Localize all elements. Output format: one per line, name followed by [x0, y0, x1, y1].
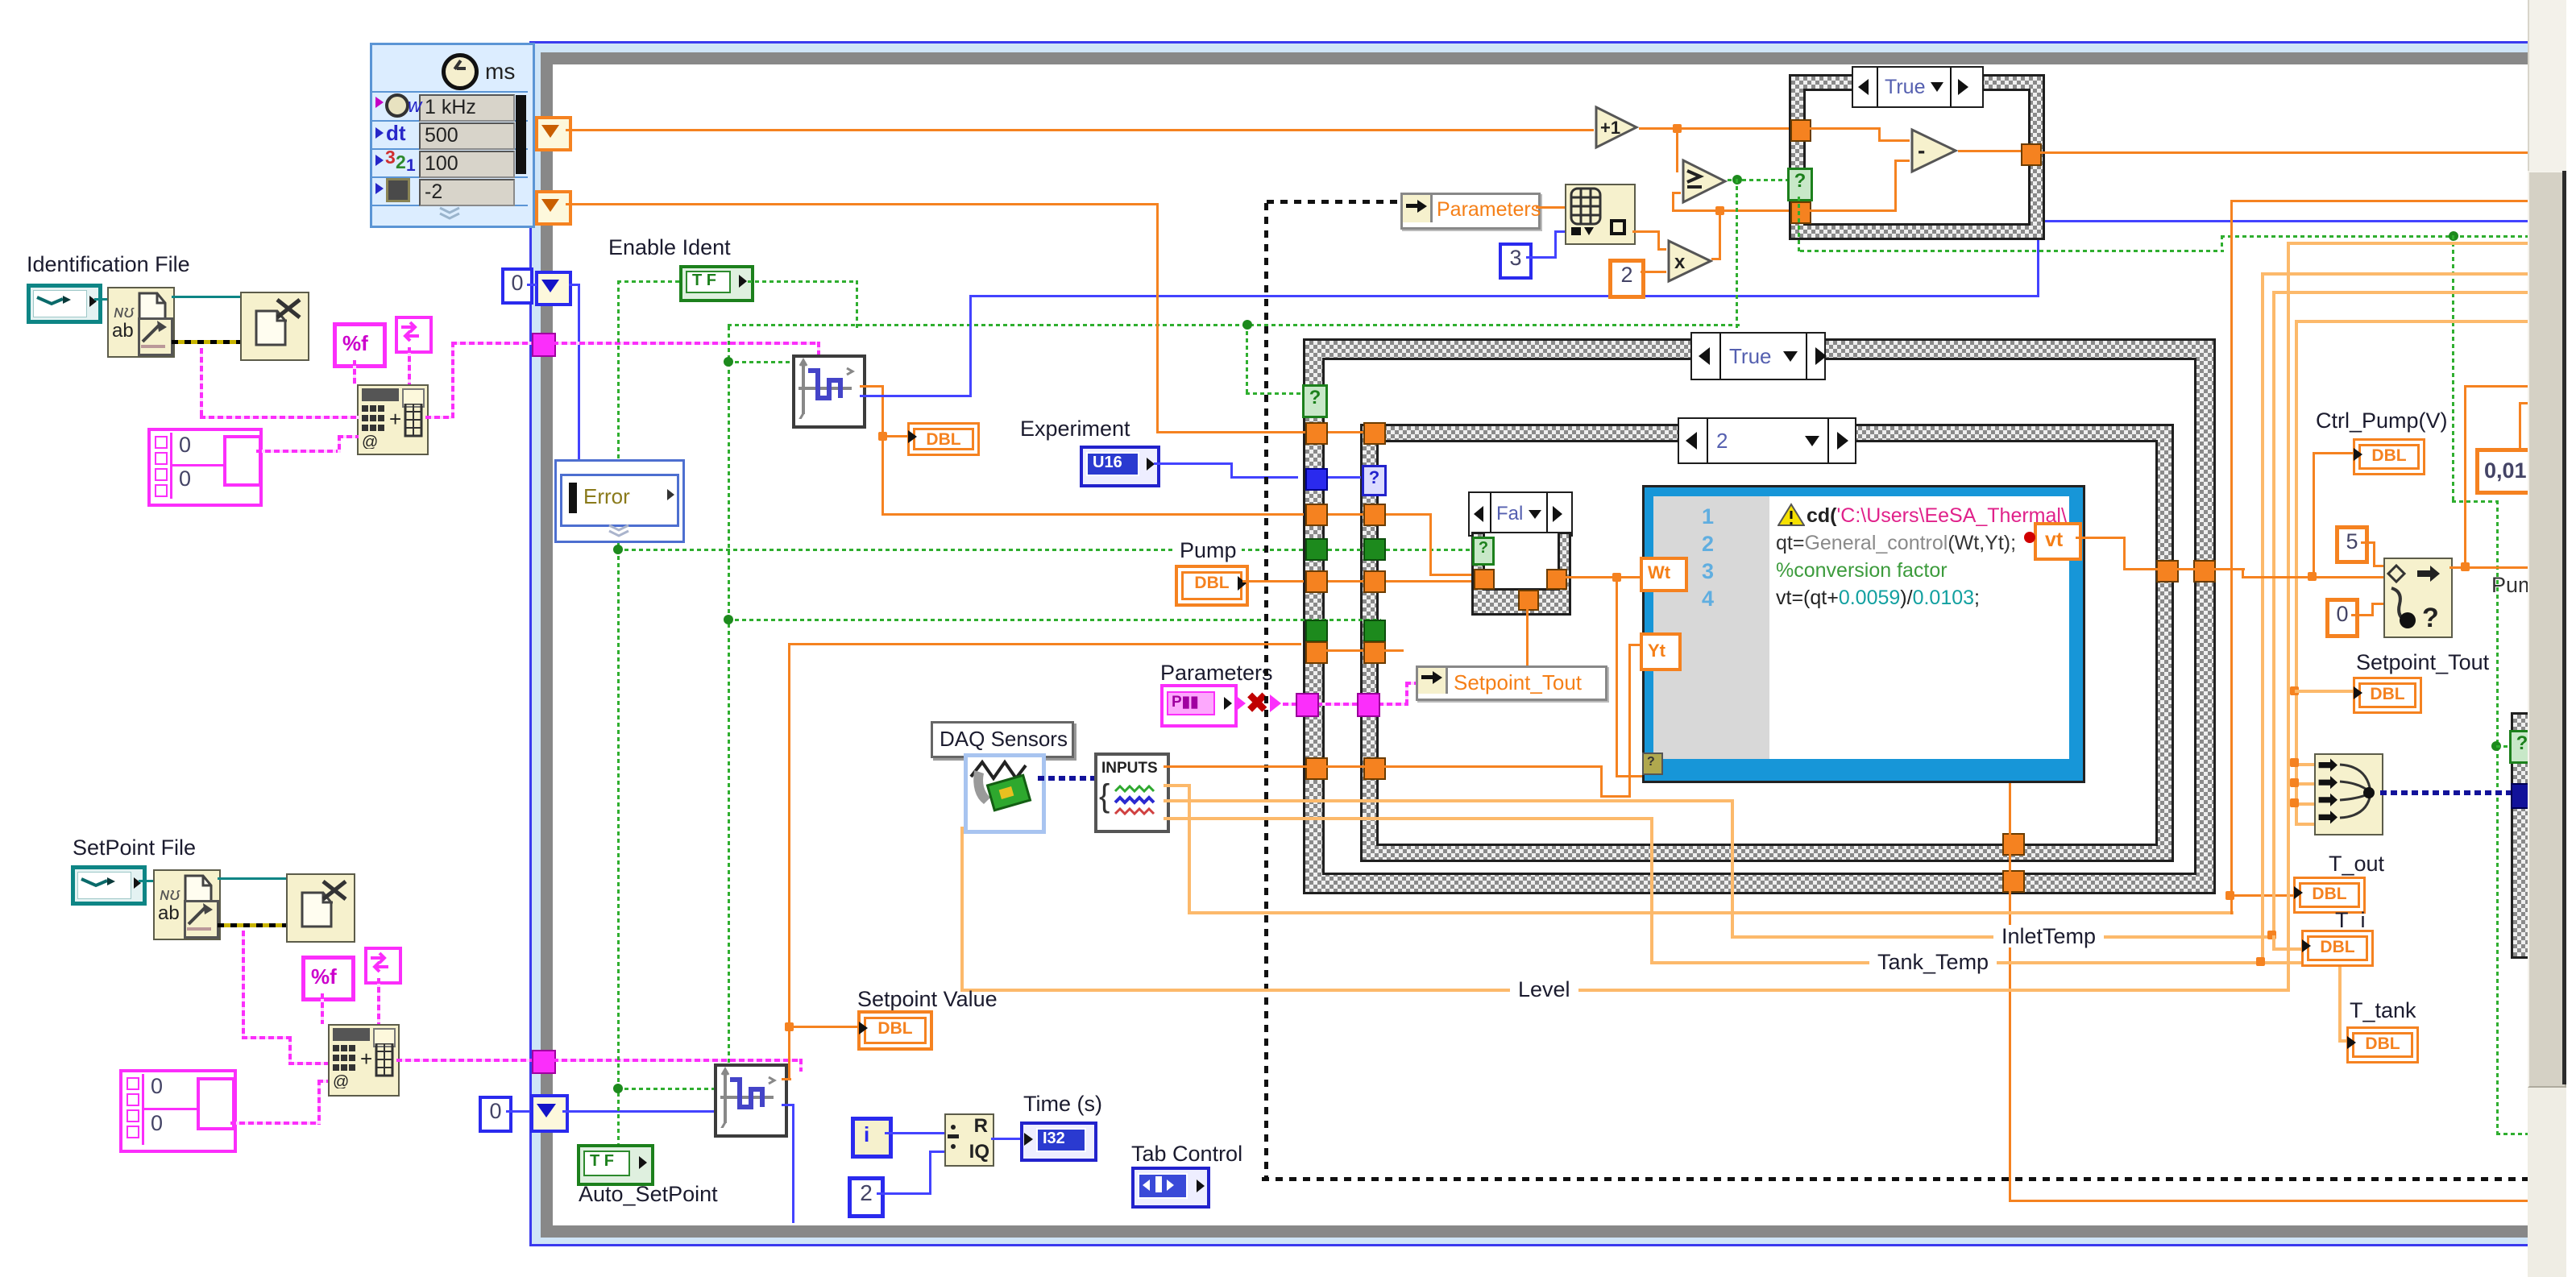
case selector green outer case — [1302, 384, 1328, 418]
label Auto_SetPoint — [579, 1183, 718, 1205]
wire orange setpoint tout column — [0, 0, 1, 1]
wire orange 0 to in range — [0, 0, 1, 1]
label T_tank — [2350, 999, 2416, 1022]
wire orange INPUTS out2 — [0, 0, 1, 1]
label Tank_Temp — [1869, 951, 1997, 973]
label Enable Ident — [608, 236, 731, 259]
timed loop row icon 321 — [375, 150, 417, 174]
wire orange T_out feed — [0, 0, 1, 1]
wire orange Wt feed main vertical — [0, 0, 1, 1]
wire magenta %f into format (top) — [353, 360, 356, 384]
read from file VI (SetPoint) — [153, 869, 221, 940]
script code line 3 — [1776, 559, 1948, 583]
case selector green right fragment — [2509, 730, 2535, 764]
greater or equal node — [1681, 158, 1728, 205]
conversion icon (top) — [395, 316, 433, 354]
svg-text:ɴʊ: ɴʊ — [114, 301, 135, 321]
label T_out — [2329, 852, 2384, 875]
tunnels on case right borders — [0, 0, 1, 1]
timed loop configuration block — [370, 43, 535, 228]
DAQ assistant icon — [964, 753, 1046, 834]
timed loop value field 100 — [419, 151, 515, 178]
svg-text:+1: +1 — [1600, 118, 1620, 138]
wire blue 0 const to tunnel — [527, 284, 537, 286]
label SetPoint File — [73, 836, 196, 859]
case header inner 2 — [1678, 417, 1856, 464]
wire magenta main (inside loop bottom) — [0, 0, 1, 1]
case selector green small True — [1787, 168, 1813, 201]
wire magenta %f into format (bottom) — [321, 993, 324, 1024]
wire orange Parameters var to index node — [1536, 206, 1565, 209]
boolean TF Enable Ident — [679, 265, 754, 302]
constant %f (top) — [333, 322, 387, 368]
label DAQ Sensors — [931, 721, 1074, 758]
script code line 2 — [1776, 532, 2016, 555]
scrollbar overlay corner — [2528, 0, 2566, 171]
tunnel navy right fragment — [2511, 783, 2535, 809]
path control Identification File — [27, 284, 102, 324]
wire orange 5 to in range — [0, 0, 1, 1]
wire orange small case output to right edge — [2040, 151, 2528, 154]
wire orange timing offset to case tunnel — [0, 0, 1, 1]
timed loop row separators — [0, 0, 1, 1]
build array node — [2314, 753, 2383, 835]
index array node — [1565, 184, 1636, 245]
tunnels Fal case — [0, 0, 1, 1]
indicator DBL T_out — [2293, 877, 2366, 914]
tunnel orange offset (loop border) — [535, 190, 572, 226]
constant 0,01 orange — [2475, 448, 2535, 495]
tunnels on case bottom borders — [0, 0, 1, 1]
scrollbar overlay track — [2528, 0, 2576, 1277]
junction green dots left — [0, 0, 1, 1]
wire orange yt to in range — [0, 0, 1, 1]
constant %f (bottom) — [301, 956, 355, 1001]
svg-text:ab: ab — [158, 902, 180, 924]
error sequence inner — [560, 474, 679, 527]
case structure inner 2 — [1360, 424, 2174, 862]
label Experiment — [1020, 417, 1130, 440]
indicator I32 Time — [1020, 1122, 1097, 1162]
constant 5 orange — [2335, 525, 2369, 564]
wire orange Tank_Temp line — [0, 0, 1, 1]
label Level — [1510, 978, 1578, 1001]
case structure Fal header — [1468, 491, 1573, 537]
multiply node — [1666, 238, 1713, 284]
MATLAB script node code area — [1769, 496, 2069, 759]
scrollbar overlay white — [2566, 0, 2576, 1277]
label Pump clipped — [2491, 574, 2537, 596]
case structure outer True — [1303, 338, 2216, 894]
wire orange Fal bottom to Setpoint_Tout var — [1526, 607, 1529, 665]
wire magenta format output to shift register (bottom) — [396, 1059, 535, 1062]
right case structure fragment — [2511, 712, 2538, 959]
case structure small True — [1789, 74, 2045, 240]
timed loop value field -2 — [419, 179, 515, 206]
script line numbers — [0, 0, 1, 1]
case header small True — [1852, 66, 1984, 108]
timed loop scroll bar — [516, 95, 526, 174]
wire orange index out to multiply — [0, 0, 1, 1]
square wave generator node 2 — [714, 1063, 788, 1138]
label InletTemp — [1993, 925, 2104, 947]
wire green gte to right column — [0, 0, 1, 1]
wire orange INPUTS out1 to Yt — [0, 0, 1, 1]
cluster constant 0 0 (top) — [147, 428, 263, 507]
tab control decoration frame (black dashed) — [0, 0, 1, 1]
wire magenta format output to shift register (top) — [0, 0, 1, 1]
wire magenta main (inside loop top) — [0, 0, 1, 1]
case header outer True — [1690, 332, 1826, 380]
square wave generator node 1 — [792, 354, 866, 429]
timed loop row icon chip — [375, 178, 416, 201]
wire orange node2 to setpoint value and case — [0, 0, 1, 1]
control Tab Control — [1131, 1167, 1210, 1209]
tunnel orange inner case y535 — [1363, 422, 1386, 445]
timed loop collapse chevron — [437, 206, 463, 221]
while loop left border — [0, 0, 1, 1]
svg-text:ab: ab — [112, 320, 134, 342]
iteration terminal i — [851, 1117, 893, 1159]
wire orange increment to small case — [0, 0, 1, 1]
broken wire X parameters — [0, 0, 1, 1]
label Time (s) — [1023, 1092, 1102, 1115]
indicator DBL Setpoint Value — [857, 1010, 933, 1051]
wire teal path to read VI (top) — [94, 298, 107, 301]
timed loop value field 1 kHz — [419, 94, 515, 122]
script code line 4 — [1776, 587, 1980, 610]
wire magenta cluster to format node (bottom) — [0, 0, 1, 1]
tunnel magenta outer case — [1296, 693, 1319, 717]
svg-text:x: x — [1674, 251, 1686, 273]
svg-text:?: ? — [2422, 603, 2439, 633]
case structure Fal body — [1471, 532, 1571, 616]
scrollbar overlay edge — [2562, 171, 2566, 1084]
indicator DBL T_i — [2301, 930, 2374, 967]
MATLAB script node gutter — [1653, 496, 1769, 759]
indicator DBL Setpoint_Tout — [2353, 677, 2422, 714]
wire blue quotient to I32 — [991, 1138, 1020, 1140]
format into string node (bottom) — [328, 1024, 400, 1097]
wire navy build array out — [2380, 790, 2514, 795]
wire blue node1 loop — [0, 0, 1, 1]
close file VI (Identification) — [240, 292, 309, 361]
wire orange 0,01 up — [0, 0, 1, 1]
scrollbar overlay thumb — [2528, 171, 2566, 1088]
wire orange Level line — [0, 0, 1, 1]
tunnel blue 0 (loop border) — [535, 271, 572, 306]
indicator DBL (node1 output) — [907, 422, 980, 456]
wire orange Fal out to Wt — [0, 0, 1, 1]
shift register blue (bottom) — [530, 1094, 569, 1133]
tunnels on inner case left border — [0, 0, 1, 1]
wire green gte out to small case selector — [0, 0, 1, 1]
svg-text:+: + — [360, 1047, 372, 1071]
script input terminal Wt — [1640, 557, 1688, 592]
svg-text:-: - — [1918, 138, 1925, 163]
error sequence chevron — [606, 524, 632, 538]
scrollbar track — [2528, 0, 2576, 1277]
coercion dot red yt — [2024, 532, 2035, 543]
wire orange Pump to case — [0, 0, 1, 1]
label Ctrl_Pump(V) — [2316, 409, 2448, 432]
read from file VI (Identification) — [107, 287, 175, 358]
scrollbar upper corner — [2528, 0, 2566, 171]
label Parameters (control) — [1160, 661, 1273, 684]
case selector green Fal — [1472, 537, 1495, 566]
conversion icon (bottom) — [364, 947, 402, 985]
wire magenta read to format node (bottom) — [0, 0, 1, 1]
timed loop row icon clock w — [375, 95, 416, 118]
wire magenta conversion icon into format (top) — [408, 347, 411, 384]
timed loop value field dt 500 — [419, 122, 515, 150]
svg-text:@: @ — [362, 433, 378, 449]
constant 0 orange — [2325, 598, 2359, 638]
constant 3 blue — [1499, 243, 1533, 280]
path control SetPoint File — [71, 865, 147, 906]
wire error read to close (top) — [172, 340, 240, 344]
INPUTS node — [1094, 753, 1170, 833]
script code line 1 — [1807, 504, 2067, 528]
script input terminal Yt — [1640, 632, 1682, 671]
indicator DBL T_tank — [2346, 1026, 2419, 1063]
in range and coerce node — [2383, 558, 2453, 638]
while loop top border — [0, 0, 1, 1]
tunnels on outer case left border — [0, 0, 1, 1]
quotient remainder node — [944, 1113, 994, 1167]
wire blue 3 to index node — [0, 0, 1, 1]
constant 0 (bottom left) — [479, 1096, 512, 1133]
wire orange multiply out up to gte — [0, 0, 1, 1]
wire magenta cluster to format node (top) — [0, 0, 1, 1]
wire blue 0 to shift register (bottom) — [506, 1110, 530, 1113]
wire error read to close (bottom) — [218, 923, 286, 927]
label Setpoint_Tout right — [2356, 651, 2489, 674]
wire orange node1 to DBL and case tunnel — [0, 0, 1, 1]
control Parameters magenta — [1160, 684, 1238, 728]
constant 0 (top left) — [501, 267, 533, 305]
boolean TF Auto_SetPoint — [577, 1144, 654, 1186]
wire magenta Parameters to local var — [0, 0, 1, 1]
control U16 Experiment — [1080, 446, 1160, 487]
wire orange dt tunnel to increment — [566, 129, 1594, 131]
tunnels small True case — [0, 0, 1, 1]
wire navy DAQ to INPUTS — [1038, 776, 1094, 781]
error sequence frame — [554, 459, 685, 543]
svg-text:@: @ — [333, 1073, 349, 1088]
script warning icon — [1777, 503, 1805, 527]
wire teal path to read VI (bottom) — [139, 880, 153, 882]
decrement node — [1910, 127, 1958, 174]
timed loop ms label — [485, 60, 515, 83]
wire magenta read to format node (top) — [0, 0, 1, 1]
wire orange T_i feed — [0, 0, 1, 1]
tunnel orange dt (loop border) — [535, 116, 572, 151]
wire orange T_tank feed — [0, 0, 1, 1]
control DBL Pump — [1175, 565, 1249, 607]
wire blue Experiment to case selector — [0, 0, 1, 1]
wire orange decrement to right tunnel — [1958, 150, 2021, 152]
MATLAB script node frame — [1642, 485, 2085, 783]
tunnel blue on outer case — [1305, 468, 1328, 491]
wire magenta conversion icon into format (bottom) — [377, 978, 380, 1024]
tunnel magenta inner case — [1357, 693, 1380, 717]
wire orange Ctrl_Pump feed — [0, 0, 1, 1]
timed loop row icon dt — [375, 122, 416, 145]
close file VI (SetPoint) — [286, 873, 355, 943]
format into string node (top) — [357, 384, 429, 455]
scrollbar right white strip — [2566, 0, 2576, 1277]
while loop bottom border — [0, 0, 1, 1]
wire green Enable Ident net — [0, 0, 1, 1]
increment node +1 — [1594, 105, 1639, 150]
cluster constant 0 0 (bottom) — [119, 1069, 237, 1153]
wire teal read to close (top) — [172, 296, 240, 298]
label Identification File — [27, 253, 190, 276]
shift register magenta (top) — [532, 333, 556, 357]
tunnel orange outer case y535 — [1305, 422, 1328, 445]
label T_i — [2335, 909, 2366, 931]
label Setpoint Value — [857, 988, 998, 1010]
wire blue node2 down — [0, 0, 1, 1]
case selector blue inner case — [1362, 465, 1387, 496]
wire blue shift register to sqwave node 2 — [562, 1110, 714, 1113]
wire blue i to quotient — [885, 1132, 944, 1134]
local variable Parameters — [1400, 193, 1541, 230]
wire teal read to close (bottom) — [218, 877, 286, 880]
indicator DBL Ctrl_Pump — [2353, 438, 2425, 475]
label Tab Control — [1131, 1142, 1242, 1165]
label Pump — [1175, 539, 1242, 562]
scrollbar thumb — [2528, 171, 2566, 1088]
local variable Setpoint_Tout — [1416, 665, 1607, 701]
constant 2 orange — [1608, 259, 1645, 299]
svg-text:+: + — [389, 407, 401, 431]
shift register magenta (bottom) — [532, 1050, 556, 1074]
constant 2 blue bottom — [848, 1176, 885, 1218]
script error box — [1642, 753, 1663, 775]
wire orange in range out — [0, 0, 1, 1]
wire blue tunnel down to error frame — [0, 0, 1, 1]
wire blue 2 to quotient — [0, 0, 1, 1]
script output terminal yt — [2034, 522, 2082, 561]
timed loop clock icon — [442, 53, 479, 90]
wire orange small case inputs to decrement — [0, 0, 1, 1]
wire orange 2 to multiply — [1641, 271, 1666, 273]
svg-text:ɴʊ: ɴʊ — [160, 884, 180, 904]
window edge line — [2562, 171, 2566, 1084]
wire orange INPUTS out3 InletTemp — [0, 0, 1, 1]
